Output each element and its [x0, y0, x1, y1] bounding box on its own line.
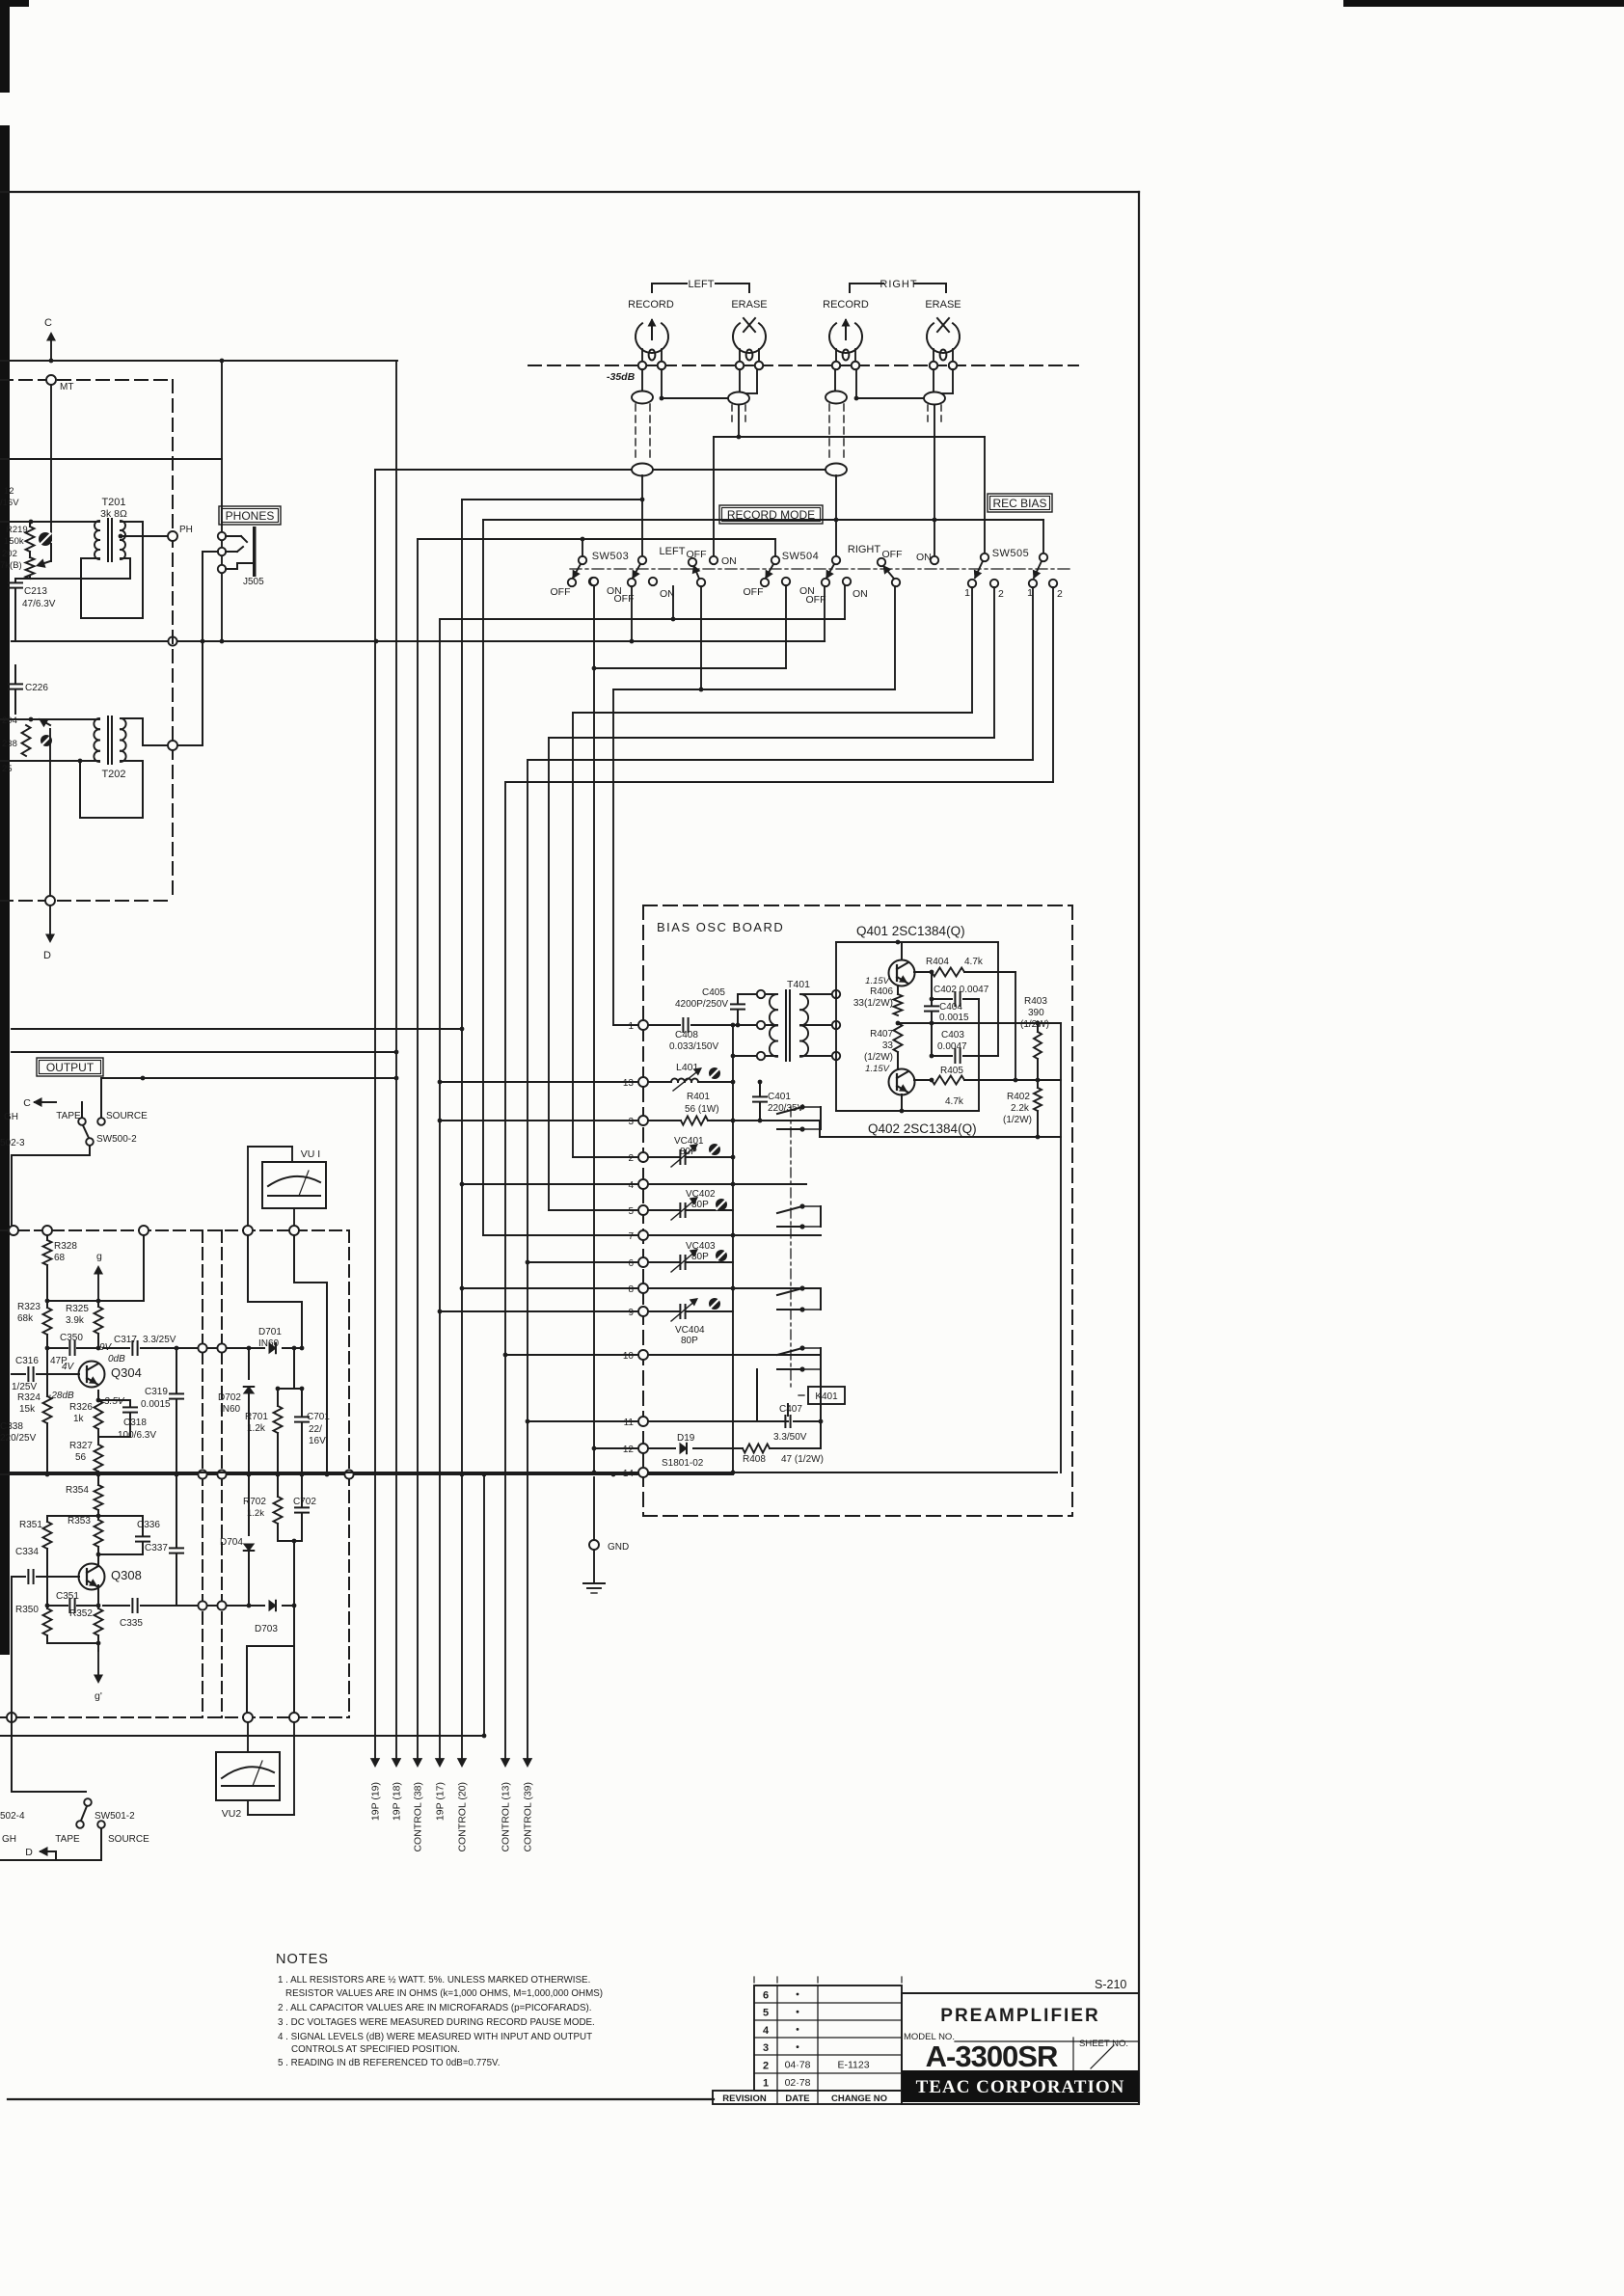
svg-text:K401: K401 [815, 1391, 838, 1402]
resistor R351 [19, 1520, 52, 1608]
svg-text:D703: D703 [255, 1624, 278, 1634]
node PH terminal [168, 525, 193, 541]
wire T202 primary bottom [0, 760, 99, 762]
svg-text:REC BIAS: REC BIAS [992, 497, 1046, 510]
wire pin 6 feed [526, 1260, 637, 1265]
svg-text:R354: R354 [66, 1485, 89, 1496]
REC BIAS label box [988, 494, 1052, 512]
shielded cable left record upper [632, 392, 653, 404]
resistor R324 15k [17, 1392, 52, 1474]
svg-text:OFF: OFF [744, 586, 764, 598]
wire pin 4 feed [460, 1182, 637, 1187]
svg-text:204: 204 [2, 716, 17, 726]
wire T401 bottom feed [731, 1054, 757, 1059]
node g arrow [94, 1251, 103, 1301]
svg-text:C: C [23, 1097, 31, 1109]
svg-text:14: 14 [623, 1469, 635, 1479]
switch record-mode master LEFT [689, 556, 717, 586]
svg-text:Q308: Q308 [111, 1568, 142, 1582]
wire record mode feed [462, 499, 642, 500]
switch SW500-2 tape/source [0, 1078, 148, 1227]
wire to SW505 pivot 2 [1042, 520, 1044, 554]
wire VU1 left lead [248, 1147, 292, 1227]
node GND terminal [589, 1540, 629, 1553]
svg-text:0.0047: 0.0047 [937, 1041, 967, 1052]
capacitor C336 [98, 1520, 160, 1554]
svg-text:ON: ON [916, 552, 932, 563]
connector pin terminals [623, 1020, 648, 1479]
relay K401 [798, 1387, 845, 1404]
label Q402 [868, 1121, 977, 1136]
svg-text:T202: T202 [101, 769, 125, 780]
capacitor C213 47/6.3V [9, 579, 56, 641]
svg-text:D702: D702 [218, 1392, 241, 1403]
wire T202 bottom loop [78, 759, 143, 818]
wire output bus h1091 [12, 1050, 398, 1055]
wire right record to SW504 pivot [834, 475, 839, 556]
svg-text:16V: 16V [309, 1436, 326, 1446]
wire erase right bus horizontal [483, 519, 1043, 521]
svg-text:SW504: SW504 [782, 551, 820, 562]
wire jack column v230 [221, 361, 223, 641]
switch SW503 section a [568, 556, 597, 586]
wire pin 8 feed [460, 1286, 637, 1291]
wire R404 drop v1053 [1015, 972, 1016, 1080]
svg-text:IN60: IN60 [220, 1404, 241, 1415]
svg-text:502-3: 502-3 [0, 1138, 25, 1148]
capacitor C226 [9, 665, 48, 714]
svg-text:R401: R401 [687, 1092, 710, 1102]
capacitor C337 [145, 1472, 183, 1606]
wire left record to SW503 pivot [640, 475, 645, 556]
node LEFT channel bracket [652, 279, 749, 292]
svg-text:7k(B): 7k(B) [0, 560, 22, 571]
wire control bus CONTROL (13) [501, 782, 512, 1852]
svg-text:R402: R402 [1007, 1092, 1030, 1102]
svg-text:VU2: VU2 [222, 1808, 242, 1820]
capacitor C402 0.0047 [932, 972, 989, 1006]
wire bias tie h1349 [45, 1235, 144, 1308]
wire h476 [0, 458, 222, 460]
wire right record head hot jog [854, 369, 924, 400]
wire record head shield bus [375, 469, 837, 471]
svg-text:R701: R701 [245, 1412, 268, 1422]
relay contact pair 2 [777, 1203, 821, 1229]
wire pin feeder v636 [612, 689, 614, 1025]
svg-text:100/6.3V: 100/6.3V [118, 1430, 156, 1441]
resistor R219 150k [4, 522, 35, 552]
wire pin 10 line inside [648, 1354, 821, 1356]
meter VU2 [216, 1752, 280, 1820]
svg-text:BIAS OSC BOARD: BIAS OSC BOARD [657, 920, 784, 934]
wire pin 8 line inside [648, 1286, 821, 1291]
svg-text:C318: C318 [123, 1418, 147, 1428]
svg-text:C226: C226 [25, 683, 48, 693]
relay contact dash-dot actuator [790, 1107, 792, 1387]
wire erase bias bus [714, 405, 985, 439]
svg-text:RECORD: RECORD [628, 299, 674, 311]
svg-text:SW503: SW503 [592, 551, 630, 562]
svg-text:LEFT: LEFT [689, 279, 715, 290]
relay contact pair 1 [777, 1104, 821, 1131]
svg-text:3: 3 [628, 1117, 634, 1127]
svg-text:R352: R352 [69, 1608, 93, 1619]
switch SW503 section b [628, 556, 657, 586]
svg-text:g: g [96, 1251, 102, 1262]
wire pin 4 line inside [648, 1182, 806, 1187]
svg-text:ERASE: ERASE [925, 299, 961, 311]
wire VU1 right lead [293, 1208, 295, 1227]
cable shield dashes left record [636, 404, 650, 461]
wire v867 left rail [835, 942, 837, 1111]
svg-text:6: 6 [628, 1258, 634, 1269]
wire left erase head hot jog [746, 369, 757, 393]
wire pin 1 feed [613, 1024, 637, 1026]
svg-text:OFF: OFF [687, 549, 707, 560]
wire left record head hot jog [660, 369, 728, 400]
svg-text:0dB: 0dB [108, 1354, 125, 1364]
wire VU1 drive jog left [248, 1235, 304, 1350]
switch labels [551, 544, 1064, 606]
capacitor C350 47P [45, 1333, 101, 1366]
svg-text:C402 0.0047: C402 0.0047 [934, 985, 989, 995]
dashed board edge v362 [348, 1230, 350, 1717]
svg-text:2: 2 [628, 1153, 634, 1164]
svg-text:D: D [43, 950, 51, 961]
wire control bus 19P (17) [435, 619, 447, 1821]
terminal posts on h1781 [7, 1713, 299, 1722]
wire mute dashed vertical [172, 380, 174, 901]
transformer T201 [95, 497, 127, 561]
wire left erase head to shield [739, 369, 741, 392]
capacitor C407 3.3/50V [773, 1404, 821, 1443]
svg-text:RECORD: RECORD [823, 299, 869, 311]
svg-text:C408: C408 [675, 1030, 698, 1040]
wire nest level 2 [592, 585, 786, 670]
svg-text:9: 9 [628, 1308, 634, 1318]
svg-text:6: 6 [763, 1990, 769, 2002]
cable shield dashes left erase [732, 405, 745, 426]
wire R402 to pin3 line [1037, 1120, 1039, 1121]
wire main bus h1529 [0, 1470, 733, 1478]
svg-text:2: 2 [763, 2060, 769, 2071]
wire T201 primary top [0, 520, 99, 525]
svg-text:CONTROL (38): CONTROL (38) [413, 1782, 424, 1852]
svg-text:5: 5 [763, 2008, 769, 2019]
svg-text:R702: R702 [243, 1497, 266, 1507]
svg-text:12: 12 [623, 1445, 635, 1455]
wire D701 output node [276, 1348, 305, 1391]
resistor R326 1k [69, 1391, 103, 1429]
capacitor C317 3.3/25V [103, 1335, 198, 1355]
wire signal line to diodes [198, 1343, 264, 1352]
svg-text:68: 68 [54, 1253, 66, 1263]
record head right (RIGHT RECORD) [823, 299, 869, 369]
relay contact pair 3 [777, 1285, 821, 1311]
capacitor C351 [45, 1591, 101, 1612]
svg-text:NOTES: NOTES [276, 1952, 329, 1967]
svg-text:4: 4 [628, 1180, 634, 1191]
svg-text:C336: C336 [137, 1520, 160, 1530]
wire output bus h1118 [101, 1076, 398, 1081]
svg-text:150k: 150k [4, 536, 24, 547]
svg-text:15k: 15k [19, 1404, 36, 1415]
wire pin 7 line inside [648, 1233, 821, 1238]
svg-text:R407: R407 [870, 1029, 893, 1040]
svg-text:1.15V: 1.15V [865, 1064, 890, 1074]
svg-text:2: 2 [1057, 588, 1063, 600]
dashed board edge h1276 [0, 1229, 349, 1231]
switch SW505 section b [1029, 554, 1057, 587]
capacitor C701 22/16V [295, 1389, 330, 1474]
switch record-mode master RIGHT [878, 556, 938, 586]
resistor R405 4.7k [932, 1066, 1061, 1107]
svg-text:R350: R350 [15, 1605, 39, 1615]
svg-text:4 . SIGNAL LEVELS (dB) WERE M: 4 . SIGNAL LEVELS (dB) WERE MEASURED WIT… [278, 2032, 592, 2042]
svg-text:D704: D704 [220, 1537, 243, 1548]
wire Q308 top tie [47, 1514, 143, 1531]
svg-text:CONTROL (13): CONTROL (13) [501, 1782, 512, 1852]
wire bias to SW505 pivot 1 [984, 437, 986, 554]
resistor R354 [66, 1485, 103, 1516]
svg-text:3k 8Ω: 3k 8Ω [100, 508, 127, 520]
wire Q308 bottom tie [47, 1641, 100, 1646]
title block box [902, 1978, 1139, 2104]
resistor R350 [15, 1605, 52, 1643]
svg-text:Q401 2SC1384(Q): Q401 2SC1384(Q) [856, 924, 965, 938]
resistor R352 [69, 1585, 103, 1651]
wire signal h1665 to D703 [198, 1601, 264, 1609]
svg-text:12: 12 [4, 486, 14, 497]
transistor Q304 [79, 1362, 142, 1388]
svg-text:REVISION: REVISION [722, 2093, 767, 2104]
diode D702 IN60 [218, 1348, 254, 1474]
svg-text:220/35V: 220/35V [768, 1103, 804, 1114]
transistor Q402 [889, 1069, 915, 1095]
svg-text:DATE: DATE [785, 2093, 809, 2104]
svg-text:E-1123: E-1123 [837, 2060, 869, 2071]
svg-text:68k: 68k [17, 1313, 34, 1324]
svg-text:R327: R327 [69, 1441, 93, 1451]
capacitor C335 [103, 1599, 198, 1629]
dashed board edge v230 [221, 1230, 223, 1717]
svg-text:238: 238 [2, 739, 17, 749]
svg-text:56: 56 [75, 1452, 87, 1463]
node RIGHT channel bracket [850, 279, 946, 292]
node g-prime arrow [94, 1651, 103, 1702]
wire right record head to shield [834, 369, 836, 392]
svg-text:3 . DC VOLTAGES WERE MEASURED: 3 . DC VOLTAGES WERE MEASURED DURING REC… [278, 2017, 595, 2028]
transistor Q401 [889, 942, 915, 986]
svg-text:R353: R353 [68, 1516, 91, 1526]
-35dB head bus dashed line [528, 365, 1078, 383]
shielded cable right record upper [826, 392, 847, 404]
svg-text:3.3/50V: 3.3/50V [773, 1432, 807, 1443]
svg-text:PH: PH [179, 525, 193, 535]
svg-text:GND: GND [608, 1542, 629, 1553]
svg-text:3.3/25V: 3.3/25V [143, 1335, 176, 1345]
svg-text:4.7k: 4.7k [964, 957, 984, 967]
capacitor C318 100/6.3V [96, 1398, 157, 1441]
wire left erase to SW503 ON contact [713, 437, 715, 556]
svg-text:CHANGE NO: CHANGE NO [831, 2093, 887, 2104]
svg-text:C338: C338 [0, 1421, 23, 1432]
wire pin 5 feed [549, 1209, 637, 1211]
wire nest level 6 [528, 587, 1033, 760]
wire VU1 drive jog right [294, 1235, 329, 1476]
resistor R403 390 (1/2W) [1020, 996, 1049, 1080]
shielded cable right erase [924, 392, 945, 405]
wire pin 10 feed [503, 1353, 637, 1358]
svg-text:C350: C350 [60, 1333, 83, 1343]
wire T202 secondary out [121, 552, 218, 750]
svg-text:CONTROLS AT SPECIFIED POSITION: CONTROLS AT SPECIFIED POSITION. [291, 2044, 460, 2055]
svg-text:SOURCE: SOURCE [106, 1111, 148, 1121]
erase head left (LEFT ERASE) [731, 299, 767, 369]
shield symbols on bus [632, 464, 847, 476]
transformer T202 [94, 716, 125, 780]
resistor R327 56 [69, 1429, 103, 1485]
capacitor C401 220/35V [753, 1080, 804, 1123]
switch SW504 section a [761, 556, 790, 586]
svg-text:LEFT: LEFT [660, 546, 686, 557]
label 225 [2, 764, 13, 774]
wire pin feeder v569 [548, 738, 550, 1210]
resistor R408 47 (1/2W) [743, 1445, 824, 1466]
svg-text:47/6.3V: 47/6.3V [22, 599, 56, 609]
svg-text:C: C [44, 317, 52, 329]
relay contact pair 4 [777, 1345, 821, 1371]
capacitor C403 0.0047 [930, 1023, 998, 1063]
svg-text:(1/2W): (1/2W) [1003, 1115, 1032, 1125]
wire control bus CONTROL (38) [413, 539, 424, 1852]
svg-text:80P: 80P [681, 1336, 698, 1346]
svg-text:SW501-2: SW501-2 [95, 1811, 135, 1822]
diode D701 IN60 [258, 1327, 296, 1353]
resistor R328 68 [43, 1235, 78, 1265]
scan edge bar left [0, 0, 29, 1655]
wire pin 7 feed [483, 1234, 637, 1236]
wire Q402 bottom loop [836, 1094, 979, 1113]
svg-text:RIGHT: RIGHT [848, 544, 881, 555]
wire T201 bottom tie [15, 522, 143, 618]
diode D703 [255, 1601, 296, 1634]
svg-text:3.5V: 3.5V [104, 1396, 125, 1407]
svg-text:D701: D701 [258, 1327, 282, 1337]
wire right erase down [933, 405, 937, 556]
svg-text:RESISTOR VALUES ARE IN OHMS (k: RESISTOR VALUES ARE IN OHMS (k=1,000 OHM… [285, 1988, 603, 1999]
switch linkage dash-dot line [570, 568, 1072, 570]
svg-text:33(1/2W): 33(1/2W) [853, 998, 893, 1009]
resistor R701 1.2k [245, 1389, 283, 1474]
svg-text:390: 390 [1028, 1008, 1044, 1018]
diode D704 [220, 1472, 254, 1606]
dashed board edge v210 [202, 1230, 203, 1717]
svg-text:4200P/250V: 4200P/250V [675, 999, 728, 1010]
svg-text:VC401: VC401 [674, 1136, 704, 1147]
wire control bus CONTROL (20) [457, 500, 469, 1852]
jack J505 [218, 527, 264, 587]
svg-text:1: 1 [964, 587, 970, 599]
svg-text:RECORD MODE: RECORD MODE [727, 508, 815, 522]
wire SW503 OFF drop [631, 586, 633, 641]
svg-text:4V: 4V [62, 1362, 75, 1372]
wire right erase head to shield [933, 369, 934, 392]
meter VU1 [262, 1148, 326, 1208]
notes [276, 1952, 603, 2068]
svg-text:TAPE: TAPE [55, 1834, 80, 1845]
resistor R402 2.2k (1/2W) [1003, 1080, 1042, 1137]
terminal posts on h1276 [9, 1226, 299, 1235]
svg-text:R324: R324 [17, 1392, 41, 1403]
svg-text:ERASE: ERASE [731, 299, 767, 311]
wire oscillator mid rail [896, 1021, 1061, 1026]
svg-text:C404: C404 [939, 1002, 962, 1013]
svg-text:R403: R403 [1024, 996, 1047, 1007]
wire D703 node down [293, 1606, 295, 1713]
svg-text:0.0015: 0.0015 [939, 1013, 969, 1023]
variable capacitor VC401 80P [648, 1136, 735, 1167]
svg-text:MT: MT [60, 382, 73, 392]
cable shield dashes right erase [928, 405, 941, 426]
wire main ground bus horizontal [12, 586, 825, 646]
wire pin 11 line inside [648, 1420, 788, 1422]
capacitor C404 0.0015 [925, 997, 969, 1023]
scan edge bar top right [1343, 0, 1624, 7]
svg-text:4: 4 [763, 2025, 770, 2037]
svg-text:D: D [25, 1847, 33, 1858]
wire pin 2 feed [573, 1156, 637, 1158]
capacitor C408 0.033/150V [648, 1018, 757, 1052]
resistor R702 [243, 1472, 283, 1541]
svg-text:C337: C337 [145, 1543, 168, 1553]
svg-text:502-4: 502-4 [0, 1811, 25, 1822]
revision table [713, 1977, 902, 2104]
svg-text:5 . READING IN dB REFERENCED: 5 . READING IN dB REFERENCED TO 0dB=0.77… [278, 2058, 500, 2068]
svg-text:25: 25 [2, 764, 13, 774]
wire left record head to shield [641, 369, 643, 392]
switch SW501-2 tape/source [0, 1798, 149, 1860]
RECORD MODE label box [719, 505, 823, 524]
svg-text:RIGHT: RIGHT [880, 279, 917, 290]
wire Q402 emitter row [914, 1078, 934, 1083]
capacitor C405 4200P/250V [675, 987, 757, 1025]
svg-text:VC404: VC404 [675, 1325, 705, 1336]
svg-text:5: 5 [628, 1206, 634, 1217]
wire nest level 1 [441, 585, 845, 621]
svg-text:0.033/150V: 0.033/150V [669, 1041, 718, 1052]
wire pin 9 feed [438, 1310, 637, 1314]
Q304 voltage labels [48, 1342, 125, 1407]
wire T202 primary top [0, 717, 99, 722]
wire VU2 bottom loop [248, 1722, 294, 1815]
wire v1098 feedback [1060, 1023, 1062, 1472]
svg-text:(1/2W): (1/2W) [1020, 1019, 1049, 1030]
frame border bottom [8, 2098, 714, 2100]
wire nest level 3 [613, 586, 895, 691]
svg-text:A-3300SR: A-3300SR [926, 2039, 1058, 2073]
svg-text:R405: R405 [940, 1066, 963, 1076]
resistor R325 3.9k [66, 1301, 103, 1348]
svg-text:PREAMPLIFIER: PREAMPLIFIER [940, 2006, 1099, 2026]
svg-text:CONTROL (39): CONTROL (39) [523, 1782, 534, 1852]
svg-text:R325: R325 [66, 1304, 89, 1314]
svg-text:47 (1/2W): 47 (1/2W) [781, 1454, 824, 1465]
svg-text:Q304: Q304 [111, 1365, 142, 1380]
svg-text:S1801-02: S1801-02 [662, 1458, 704, 1469]
wire nest level 4 [573, 587, 972, 713]
node C [44, 317, 56, 361]
